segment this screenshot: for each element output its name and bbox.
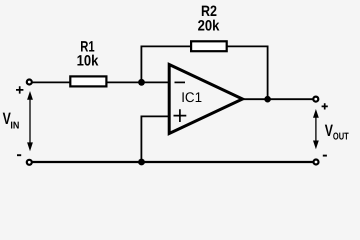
svg-text:V: V: [325, 122, 333, 140]
wire non-inverting input vertical: [140, 116, 142, 162]
wire feedback top left: [141, 45, 193, 47]
node A junction (inverting input / feedback): [138, 79, 145, 86]
label VIN: [3, 110, 20, 131]
svg-text:20k: 20k: [198, 17, 220, 34]
wire non-inverting input horizontal: [141, 115, 169, 117]
output voltage arrow: [313, 109, 319, 149]
wire R1 to op-amp inverting input: [107, 81, 169, 83]
terminal input top: [27, 80, 32, 85]
terminal output top: [313, 97, 318, 102]
wire feedback top right: [226, 45, 268, 47]
resistor R2: [191, 41, 227, 51]
wire bottom rail: [33, 161, 314, 163]
output minus sign: [323, 155, 327, 157]
terminal output bottom: [314, 160, 319, 165]
op-amp U1 triangle: [169, 65, 242, 134]
label VOUT: [325, 122, 349, 143]
node C junction (output / feedback): [264, 96, 271, 103]
resistor R1: [70, 76, 106, 86]
node B junction (bottom rail): [138, 159, 145, 166]
input minus sign: [17, 154, 21, 156]
svg-text:OUT: OUT: [333, 131, 349, 142]
wire feedback right vertical: [267, 46, 269, 100]
svg-text:IN: IN: [10, 120, 19, 131]
input voltage arrow: [27, 91, 33, 151]
svg-text:10k: 10k: [77, 53, 99, 70]
wire feedback left vertical: [140, 46, 142, 82]
input plus sign: [16, 86, 23, 93]
op-amp inverting input marker: [175, 81, 186, 83]
terminal input bottom: [27, 160, 32, 165]
wire input top (terminal to R1): [33, 81, 71, 83]
output plus sign: [322, 103, 328, 109]
op-amp non-inverting input marker: [174, 109, 187, 122]
wire output: [242, 98, 313, 100]
svg-text:IC1: IC1: [181, 89, 202, 105]
